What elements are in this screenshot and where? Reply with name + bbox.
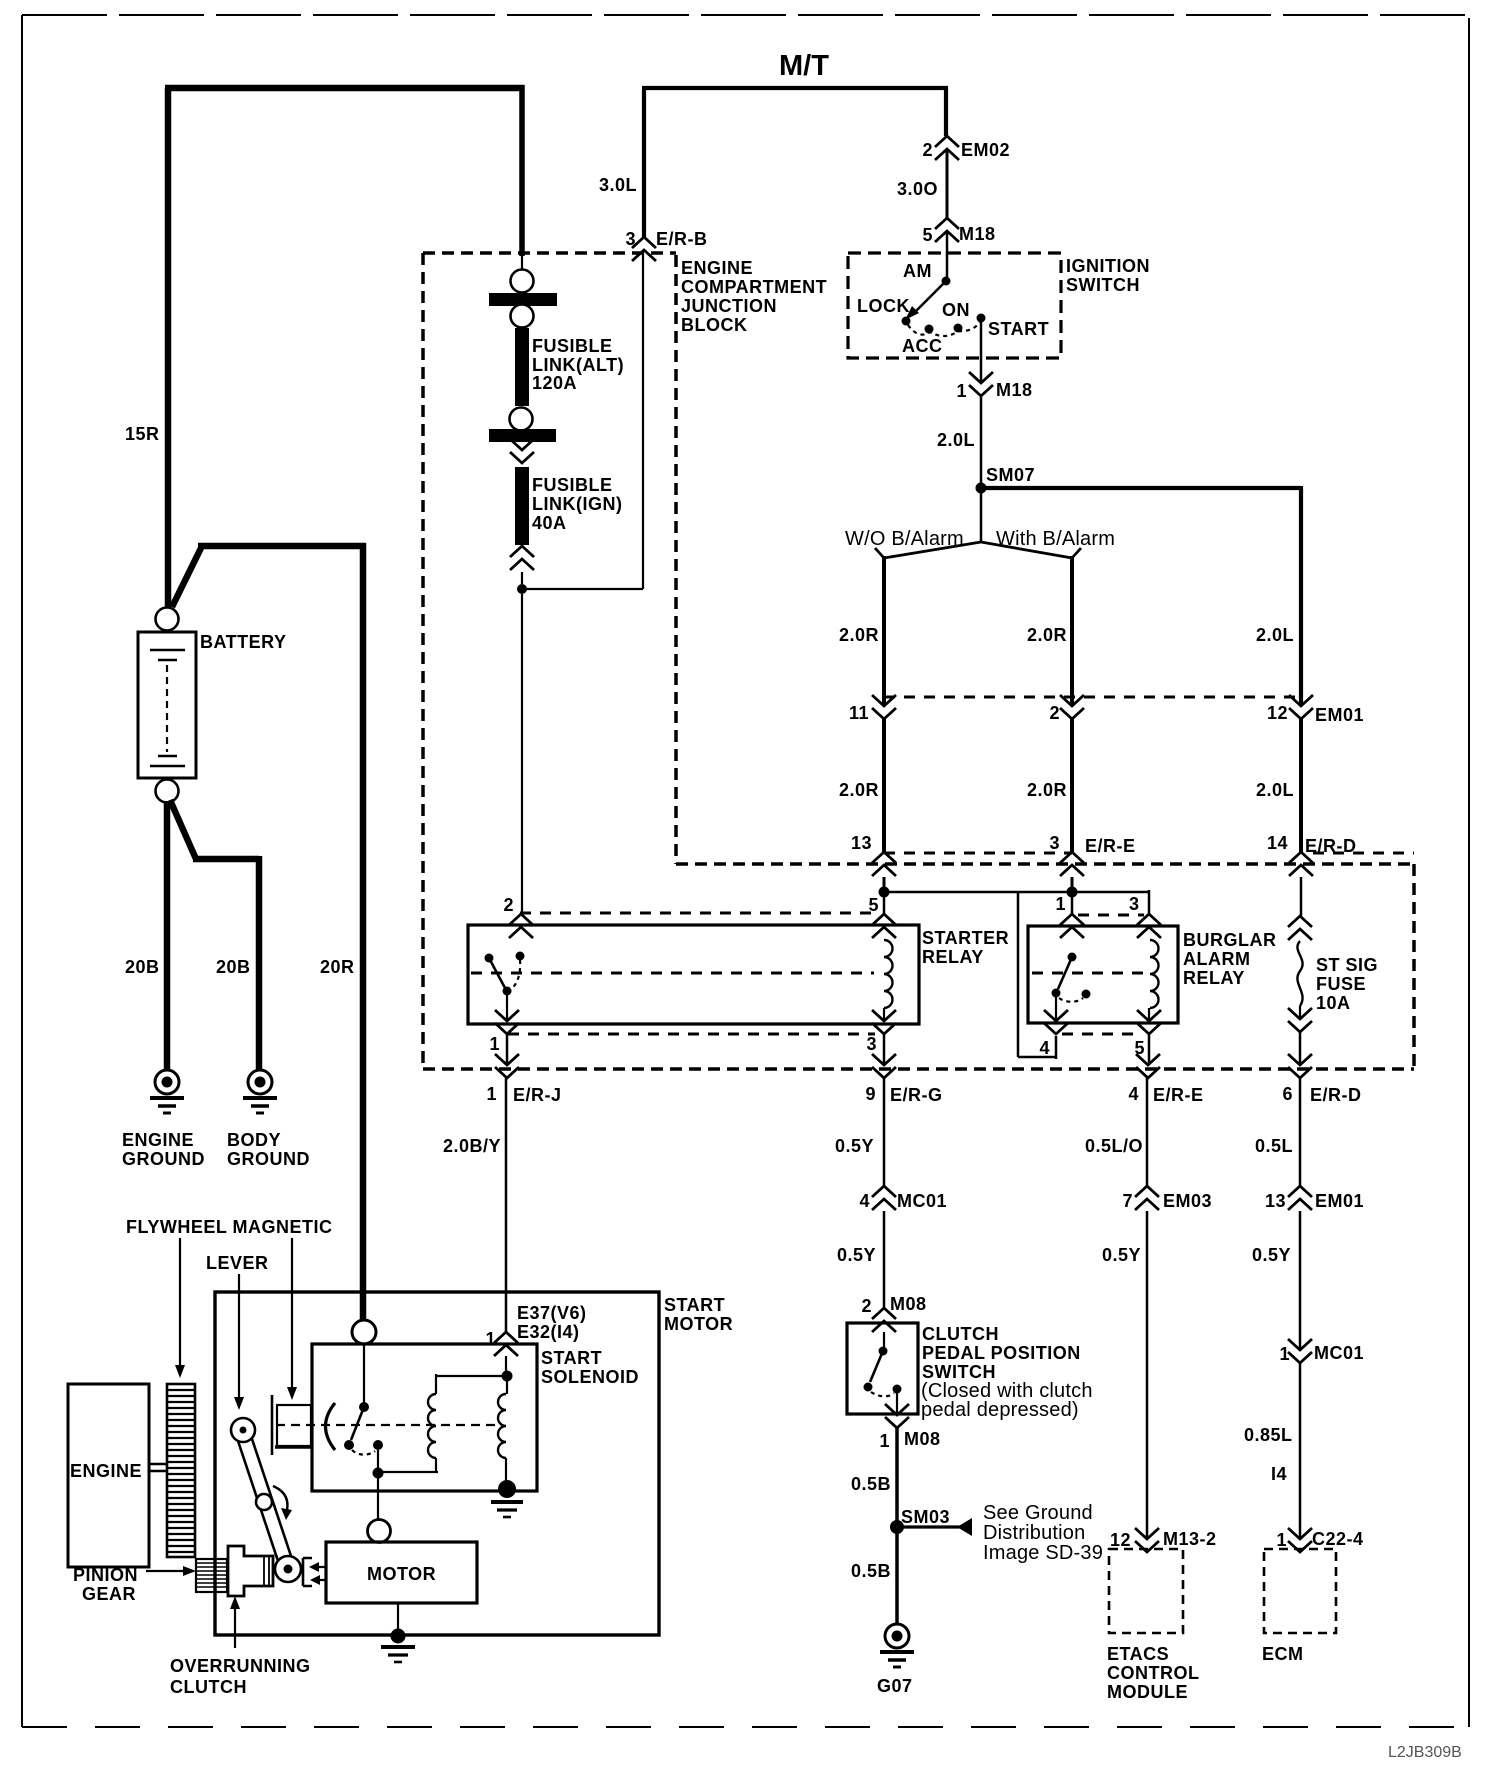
block exit connector E/R-D pin 6 — [1288, 1054, 1312, 1078]
svg-text:START: START — [664, 1295, 725, 1315]
svg-text:START: START — [988, 319, 1049, 339]
wire: node to E/R-B riser — [522, 251, 643, 589]
engine block box — [68, 1384, 149, 1567]
svg-text:BLOCK: BLOCK — [681, 315, 748, 335]
starter relay dashed arc — [510, 960, 520, 990]
ignition switch dashed travel arc — [908, 322, 980, 336]
svg-text:pedal depressed): pedal depressed) — [921, 1399, 1079, 1421]
svg-text:4: 4 — [1039, 1038, 1050, 1058]
svg-text:E/R-E: E/R-E — [1153, 1085, 1204, 1105]
lever lower end — [275, 1556, 301, 1582]
svg-text:RELAY: RELAY — [922, 947, 984, 967]
wire SM03 to G07 0.5B — [895, 1530, 899, 1625]
svg-text:G07: G07 — [877, 1676, 913, 1696]
wire pin13 to starter relay node — [883, 877, 886, 889]
connector M13-2 pin 12 — [1135, 1528, 1159, 1552]
svg-text:1: 1 — [1055, 894, 1066, 914]
wire E/R-G to MC01 0.5Y — [883, 1078, 886, 1186]
solenoid switch dashed arc — [352, 1450, 375, 1455]
solenoid ground — [498, 1480, 516, 1498]
svg-text:1: 1 — [879, 1431, 890, 1451]
svg-text:15R: 15R — [125, 424, 160, 444]
connector EM02 pin 2 — [935, 136, 959, 160]
burglar relay coil — [1150, 940, 1159, 1008]
svg-text:BODY: BODY — [227, 1130, 281, 1150]
wire E/R-J to start motor 2.0B/Y — [505, 1078, 508, 1333]
svg-text:CONTROL: CONTROL — [1107, 1663, 1200, 1683]
svg-text:20R: 20R — [320, 957, 355, 977]
ST SIG fuse entry chevrons — [1300, 877, 1303, 916]
motor box — [326, 1542, 477, 1603]
node SM07 — [976, 483, 987, 494]
wire EM02 to M18 — [946, 149, 949, 218]
svg-text:E/R-G: E/R-G — [890, 1085, 943, 1105]
fusible link ALT bus bar — [489, 293, 557, 306]
svg-text:ACC: ACC — [902, 336, 943, 356]
wire motor to ground — [397, 1603, 399, 1630]
connector M08 pin 2 — [872, 1308, 896, 1332]
svg-text:SM03: SM03 — [901, 1507, 950, 1527]
svg-text:13: 13 — [1265, 1191, 1286, 1211]
lever pivot — [231, 1418, 255, 1442]
starter relay pin 2 chevrons — [509, 914, 533, 938]
thin dashed rail through relay interior — [471, 972, 874, 975]
starter relay contact fixed — [485, 954, 494, 963]
svg-text:MC01: MC01 — [897, 1191, 947, 1211]
SM03 see-ground pointer — [897, 1525, 960, 1528]
svg-text:ETACS: ETACS — [1107, 1644, 1169, 1664]
svg-text:ENGINE: ENGINE — [70, 1461, 142, 1481]
burglar relay pin 3 chevrons — [1137, 914, 1161, 938]
svg-text:E32(I4): E32(I4) — [517, 1322, 580, 1342]
svg-text:7: 7 — [1122, 1191, 1133, 1211]
svg-text:2.0R: 2.0R — [839, 780, 879, 800]
wire pin3 to block exit — [883, 1034, 886, 1065]
svg-text:0.5L/O: 0.5L/O — [1085, 1136, 1143, 1156]
connector M08 pin 1 — [885, 1404, 909, 1428]
burglar relay pin 5 chevrons — [1148, 1008, 1150, 1021]
branch split W/O vs With B/Alarm — [875, 542, 1081, 558]
svg-text:STARTER: STARTER — [922, 928, 1009, 948]
svg-text:M13-2: M13-2 — [1163, 1529, 1217, 1549]
flywheel pointer arrow — [179, 1238, 181, 1366]
svg-text:EM02: EM02 — [961, 140, 1010, 160]
fusible link ALT terminal circle top — [511, 270, 534, 293]
clutch switch lever — [870, 1351, 883, 1382]
svg-text:0.5Y: 0.5Y — [837, 1245, 876, 1265]
wire 2.0R below EM01 pin 2 — [1070, 719, 1074, 852]
svg-text:3: 3 — [1129, 894, 1140, 914]
ignition switch LOCK contact — [902, 317, 911, 326]
svg-text:GROUND: GROUND — [122, 1149, 205, 1169]
connector chevrons below IGN bar — [510, 439, 534, 463]
svg-text:120A: 120A — [532, 373, 577, 393]
svg-text:1: 1 — [485, 1329, 496, 1349]
lever rotation arrow — [273, 1486, 287, 1514]
block exit connector E/R-G pin 9 — [872, 1054, 896, 1078]
motor shaft bracket — [303, 1558, 312, 1586]
magnetic plunger — [271, 1395, 274, 1455]
svg-text:2.0R: 2.0R — [1027, 625, 1067, 645]
svg-text:LOCK: LOCK — [857, 296, 910, 316]
svg-text:5: 5 — [868, 895, 879, 915]
thin dashed rail below relays — [508, 1033, 875, 1036]
connector MC01 pin 1 — [1288, 1339, 1312, 1363]
clutch pedal position switch box — [847, 1323, 918, 1414]
svg-text:M08: M08 — [904, 1429, 941, 1449]
svg-text:E/R-J: E/R-J — [513, 1085, 562, 1105]
svg-text:14: 14 — [1267, 833, 1288, 853]
svg-text:ALARM: ALARM — [1183, 949, 1251, 969]
wire to pull-in winding — [436, 1374, 507, 1394]
svg-text:3: 3 — [625, 229, 636, 249]
starter relay moving contact — [503, 987, 512, 996]
svg-text:9: 9 — [865, 1084, 876, 1104]
svg-text:Image SD-39: Image SD-39 — [983, 1542, 1103, 1564]
wire: W/O B/Alarm feed 2.0R — [882, 556, 886, 705]
clutch switch fixed contact — [893, 1385, 902, 1394]
starter relay coil — [884, 940, 893, 1008]
svg-text:4: 4 — [1128, 1084, 1139, 1104]
svg-text:1: 1 — [489, 1034, 500, 1054]
wire E/R-D to EM01 0.5L — [1299, 1078, 1302, 1186]
svg-text:2.0L: 2.0L — [1256, 780, 1294, 800]
svg-text:CLUTCH: CLUTCH — [922, 1324, 999, 1344]
svg-text:M/T: M/T — [779, 50, 829, 82]
svg-text:ENGINE: ENGINE — [681, 258, 753, 278]
burglar relay pin 4 chevrons — [1044, 1010, 1068, 1034]
wire: battery positive 15R vertical and top horizontal to fusible link — [165, 88, 524, 611]
svg-text:E/R-D: E/R-D — [1310, 1085, 1362, 1105]
ground G07 — [880, 1624, 914, 1667]
svg-text:GROUND: GROUND — [227, 1149, 310, 1169]
wire from fusible link to node — [521, 572, 523, 584]
thin dashed rail EM01 row — [884, 696, 1301, 699]
connector MC01 pin 4 — [872, 1186, 896, 1210]
wire: starter pin5 node to burglar pin 4 — [889, 892, 1072, 1059]
burglar relay lever — [1058, 957, 1072, 989]
svg-text:0.5L: 0.5L — [1255, 1136, 1293, 1156]
svg-text:E37(V6): E37(V6) — [517, 1303, 587, 1323]
svg-text:0.5B: 0.5B — [851, 1561, 891, 1581]
svg-text:SWITCH: SWITCH — [922, 1362, 996, 1382]
svg-text:START: START — [541, 1348, 602, 1368]
connector M18 pin 1 — [969, 372, 993, 396]
svg-text:MOTOR: MOTOR — [367, 1564, 436, 1584]
battery B1 — [138, 608, 196, 803]
svg-text:20B: 20B — [125, 957, 160, 977]
wire: M/T loop from E/R-B up across to EM02 — [642, 88, 948, 237]
wire pin3 to burglar node — [1071, 877, 1074, 889]
starter relay pin 1 chevrons — [495, 1010, 519, 1034]
svg-text:M18: M18 — [959, 224, 996, 244]
svg-text:EM03: EM03 — [1163, 1191, 1212, 1211]
svg-text:3.0O: 3.0O — [897, 179, 938, 199]
fusible link IGN bus bar — [489, 429, 556, 442]
svg-text:PINION: PINION — [73, 1565, 138, 1585]
connector pin 13 into junction block — [872, 852, 896, 876]
svg-text:GEAR: GEAR — [82, 1584, 136, 1604]
svg-text:AM: AM — [903, 261, 932, 281]
engine compartment junction block dashed outline — [423, 253, 1414, 1069]
svg-text:JUNCTION: JUNCTION — [681, 296, 777, 316]
starter relay contact common — [516, 952, 525, 961]
svg-text:ON: ON — [942, 300, 970, 320]
ignition switch dashed box — [848, 253, 1061, 358]
connector C22-4 pin 1 — [1288, 1528, 1312, 1552]
svg-text:10A: 10A — [1316, 993, 1351, 1013]
node solenoid windings — [502, 1371, 513, 1382]
svg-text:1: 1 — [1279, 1344, 1290, 1364]
svg-text:Distribution: Distribution — [983, 1522, 1085, 1544]
wire solenoid to motor terminal — [377, 1473, 379, 1519]
svg-text:FUSIBLE: FUSIBLE — [532, 475, 613, 495]
burglar relay fixed contact — [1082, 990, 1091, 999]
svg-text:ENGINE: ENGINE — [122, 1130, 194, 1150]
svg-text:CLUTCH: CLUTCH — [170, 1677, 247, 1697]
block exit connector E/R-J pin 1 — [495, 1054, 519, 1078]
motor terminal circle — [368, 1520, 391, 1543]
wire 2.0L below EM01 pin 12 — [1299, 719, 1303, 852]
wire EM01 to MC01 0.5Y — [1299, 1211, 1302, 1350]
start motor outer box — [215, 1292, 659, 1635]
svg-text:FUSE: FUSE — [1316, 974, 1366, 994]
svg-text:FLYWHEEL MAGNETIC: FLYWHEEL MAGNETIC — [126, 1217, 333, 1237]
svg-text:With B/Alarm: With B/Alarm — [996, 528, 1115, 550]
svg-text:SOLENOID: SOLENOID — [541, 1367, 639, 1387]
burglar relay pin 4 wire — [1055, 997, 1057, 1021]
connector EM03 pin 7 — [1135, 1186, 1159, 1210]
wire 2.0L to SM07 — [980, 397, 983, 543]
svg-text:RELAY: RELAY — [1183, 968, 1245, 988]
wire: 20R battery positive branch to start motor — [172, 543, 366, 1320]
svg-text:IGNITION: IGNITION — [1066, 256, 1150, 276]
svg-text:E/R-D: E/R-D — [1305, 836, 1357, 856]
svg-text:SWITCH: SWITCH — [1066, 275, 1140, 295]
start solenoid box — [312, 1344, 537, 1491]
wire: burglar pin1 node jumper to pin 3 — [1077, 890, 1149, 914]
clutch switch wire out — [896, 1393, 898, 1415]
ST SIG fuse 10A element — [1297, 941, 1302, 1006]
clutch switch dashed arc — [871, 1392, 894, 1396]
solenoid switch wire from battery terminal — [363, 1344, 365, 1404]
fusible link IGN terminal circle — [510, 408, 533, 431]
wire M18 to ignition switch AM — [946, 231, 949, 278]
fusible link IGN 40A body — [515, 467, 529, 545]
thin dashed rail through relay pins row — [520, 912, 877, 915]
svg-text:1: 1 — [956, 381, 967, 401]
svg-text:EM01: EM01 — [1315, 1191, 1364, 1211]
burglar alarm relay box — [1028, 926, 1178, 1023]
fusible link ALT terminal circle bottom — [511, 305, 534, 328]
node switch to motor — [377, 1450, 379, 1470]
starter relay pin 5 chevrons — [872, 914, 896, 938]
svg-text:E/R-B: E/R-B — [656, 229, 708, 249]
solenoid pull-in winding coil — [428, 1394, 436, 1458]
svg-text:0.5Y: 0.5Y — [1102, 1245, 1141, 1265]
wire START down to M18 pin 1 — [980, 322, 983, 383]
svg-text:L2JB309B: L2JB309B — [1388, 1744, 1462, 1761]
node starter relay pin 5 feed — [879, 887, 890, 898]
flywheel ring gear — [167, 1384, 195, 1557]
battery cable terminal circle on solenoid — [352, 1320, 376, 1344]
clutch switch wire in — [883, 1332, 885, 1347]
node SM03 — [890, 1520, 904, 1534]
wire: battery negative 20B branch to body ground — [170, 800, 259, 1070]
svg-text:MODULE: MODULE — [1107, 1682, 1188, 1702]
connector EM01 pin 2 — [1060, 695, 1084, 719]
wire: thin lead into fusible link ALT — [521, 256, 523, 269]
wire hold-in winding to solenoid ground — [505, 1458, 507, 1482]
connector EM01 pin 11 — [872, 695, 896, 719]
svg-text:12: 12 — [1110, 1530, 1131, 1550]
burglar relay dashed arc — [1059, 998, 1083, 1002]
connector start motor pin 1 (E37/E32) — [494, 1332, 518, 1356]
svg-text:FUSIBLE: FUSIBLE — [532, 336, 613, 356]
svg-text:See Ground: See Ground — [983, 1502, 1093, 1524]
ignition switch ON contact — [954, 324, 963, 333]
svg-text:E/R-E: E/R-E — [1085, 836, 1136, 856]
ignition switch ACC contact — [925, 325, 934, 334]
lever pointer arrow — [238, 1274, 240, 1398]
svg-text:LINK(IGN): LINK(IGN) — [532, 494, 622, 514]
burglar relay moving contact — [1052, 989, 1061, 998]
wire pin1 to block exit — [506, 1034, 509, 1065]
svg-text:M18: M18 — [996, 380, 1033, 400]
svg-text:0.5B: 0.5B — [851, 1474, 891, 1494]
svg-text:0.5Y: 0.5Y — [1252, 1245, 1291, 1265]
svg-text:2: 2 — [1049, 703, 1060, 723]
svg-text:BATTERY: BATTERY — [200, 632, 287, 652]
svg-text:2.0B/Y: 2.0B/Y — [443, 1136, 501, 1156]
svg-text:2: 2 — [922, 140, 933, 160]
wire pin5 to block exit — [1148, 1034, 1151, 1065]
svg-text:4: 4 — [859, 1191, 870, 1211]
thin dashed rail E/R-E row — [884, 852, 1072, 855]
svg-text:0.5Y: 0.5Y — [835, 1136, 874, 1156]
solenoid switch fixed contact — [373, 1440, 383, 1450]
solenoid hold-in winding coil — [506, 1381, 508, 1394]
starter relay pin 3 chevrons — [883, 1008, 885, 1021]
svg-text:40A: 40A — [532, 513, 567, 533]
engine ground symbol — [150, 1070, 184, 1113]
svg-text:ECM: ECM — [1262, 1644, 1304, 1664]
burglar relay pin 1 chevrons — [1060, 914, 1084, 938]
clutch switch contact top — [879, 1347, 888, 1356]
wire: node down to starter relay pin 2 — [521, 594, 523, 913]
svg-text:3.0L: 3.0L — [599, 175, 637, 195]
wire MC01 to C22-4 0.85L — [1299, 1363, 1302, 1539]
svg-text:I4: I4 — [1271, 1464, 1287, 1484]
ST SIG fuse exit chevrons — [1299, 1006, 1301, 1019]
wire EM03 to M13-2 0.5Y — [1146, 1211, 1149, 1539]
svg-text:EM01: EM01 — [1315, 705, 1364, 725]
shift lever arm — [237, 1433, 293, 1567]
ignition switch AM contact — [942, 277, 951, 286]
burglar relay contact top — [1068, 953, 1077, 962]
motor ground node on case — [391, 1629, 406, 1644]
svg-text:BURGLAR: BURGLAR — [1183, 930, 1277, 950]
svg-text:20B: 20B — [216, 957, 251, 977]
wire MC01 to M08 0.5Y — [883, 1211, 886, 1309]
connector EM01 pin 12 — [1289, 695, 1313, 719]
wire 2.0R below EM01 pin 11 — [882, 719, 886, 852]
starter relay pin 1 wire — [506, 995, 508, 1021]
svg-text:W/O B/Alarm: W/O B/Alarm — [845, 528, 964, 550]
wire: With B/Alarm feed 2.0R — [1070, 556, 1074, 705]
solenoid feed wire to node — [505, 1356, 507, 1372]
svg-text:2.0L: 2.0L — [937, 430, 975, 450]
svg-text:OVERRUNNING: OVERRUNNING — [170, 1656, 311, 1676]
svg-text:0.85L: 0.85L — [1244, 1425, 1293, 1445]
solenoid switch lever — [351, 1407, 364, 1440]
engine to flywheel shaft — [149, 1464, 167, 1471]
connector E/R-B pin 3 — [632, 237, 656, 261]
svg-text:C22-4: C22-4 — [1312, 1529, 1364, 1549]
svg-text:11: 11 — [849, 703, 869, 723]
connector chevrons below fusible link IGN — [510, 546, 534, 570]
svg-text:1: 1 — [486, 1084, 497, 1104]
wire M08 to SM03 0.5B — [895, 1428, 899, 1522]
ignition switch lever AM to LOCK — [916, 281, 946, 311]
wire E/R-E to EM03 0.5L/O — [1146, 1078, 1149, 1186]
block exit connector E/R-E pin 4 — [1136, 1054, 1160, 1078]
node: fusible link output junction — [517, 584, 527, 594]
ETACS control module dashed box — [1109, 1549, 1183, 1633]
connector E/R-E pin 3 — [1060, 852, 1084, 876]
svg-text:3: 3 — [1049, 833, 1060, 853]
solenoid switch moving contact — [344, 1440, 354, 1450]
svg-text:SM07: SM07 — [986, 465, 1035, 485]
svg-text:2: 2 — [861, 1296, 872, 1316]
body ground symbol — [243, 1070, 277, 1113]
solenoid actuation dashed axis — [276, 1424, 497, 1426]
svg-text:COMPARTMENT: COMPARTMENT — [681, 277, 827, 297]
svg-text:3: 3 — [866, 1034, 877, 1054]
ECM dashed box — [1264, 1549, 1336, 1633]
magnetic pointer arrow — [291, 1238, 293, 1388]
wire pull-in winding to plunger contact node — [378, 1458, 438, 1472]
connector EM01 pin 13 — [1288, 1186, 1312, 1210]
svg-text:12: 12 — [1267, 703, 1288, 723]
svg-text:13: 13 — [851, 833, 872, 853]
svg-text:M08: M08 — [890, 1294, 927, 1314]
connector E/R-D pin 14 — [1289, 852, 1313, 876]
svg-text:LEVER: LEVER — [206, 1253, 269, 1273]
clutch switch moving contact — [864, 1383, 873, 1392]
starter relay box — [468, 925, 919, 1024]
svg-text:5: 5 — [922, 225, 933, 245]
wire: SM07 branch right and down to EM01 pin 12 — [981, 486, 1301, 705]
svg-text:ST SIG: ST SIG — [1316, 955, 1378, 975]
svg-text:6: 6 — [1282, 1084, 1293, 1104]
pinion gear — [196, 1559, 227, 1592]
connector M18 pin 5 — [935, 218, 959, 242]
svg-text:MC01: MC01 — [1314, 1343, 1364, 1363]
fusible link ALT 120A body — [515, 328, 529, 406]
lever mid joint — [256, 1494, 272, 1510]
node burglar alarm relay pin 1 feed — [1067, 887, 1078, 898]
svg-text:2.0R: 2.0R — [839, 625, 879, 645]
svg-text:2.0L: 2.0L — [1256, 625, 1294, 645]
overrunning clutch body — [228, 1546, 273, 1596]
svg-text:2.0R: 2.0R — [1027, 780, 1067, 800]
wire: thick drop to fusible link (junction block feed) — [519, 85, 525, 256]
svg-text:PEDAL POSITION: PEDAL POSITION — [922, 1343, 1081, 1363]
ignition switch START contact — [977, 314, 986, 323]
wire node to burglar relay pin 1 — [1071, 895, 1074, 915]
svg-text:1: 1 — [1276, 1530, 1287, 1550]
